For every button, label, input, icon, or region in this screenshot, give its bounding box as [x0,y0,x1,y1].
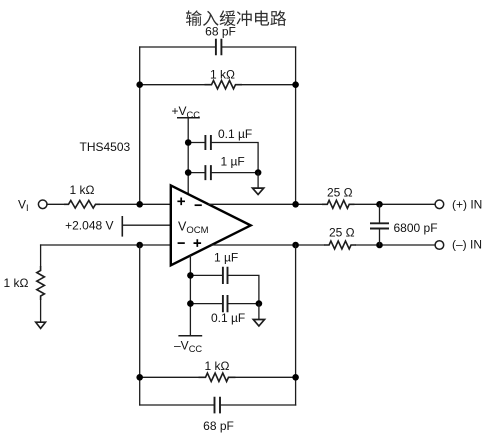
svg-text:1 µF: 1 µF [221,154,245,168]
node 6800pF bottom [376,242,383,249]
svg-text:6800 pF: 6800 pF [394,221,438,235]
resistor R1 1 kOhm input series [47,183,171,208]
node input - [136,242,143,249]
ground G3 (input divider) [36,322,46,328]
svg-text:0.1 µF: 0.1 µF [211,311,245,325]
svg-text:(+) IN: (+) IN [452,198,482,212]
capacitor C4 6800 pF across outputs [370,204,438,245]
svg-text:68 pF: 68 pF [205,24,236,38]
svg-text:0.1 µF: 0.1 µF [218,127,252,141]
node 6800pF top [376,201,383,208]
capacitor C1 68 pF top feedback [140,24,296,55]
terminal (-) IN [435,238,482,252]
node C3 right [255,169,262,176]
node top feedback right [292,81,299,88]
pin + (bottom) [194,239,202,247]
wire left feedback bus [139,47,141,204]
power -VCC rail [174,336,202,354]
wire +VCC to op-amp [187,118,189,195]
node bottom feedback left [136,374,143,381]
svg-text:25 Ω: 25 Ω [327,185,353,199]
node C2 left [185,139,192,146]
capacitor C2 0.1 uF +VCC decoupling [188,127,258,173]
pin - (bottom) [178,242,185,244]
resistor R3 1 kOhm bottom feedback [140,359,296,382]
wire - input row [41,244,171,246]
resistor R2 1 kOhm top feedback [140,68,296,89]
node C7 left [187,300,194,307]
resistor R6 25 Ohm bottom output [324,225,435,249]
node input + [136,201,143,208]
svg-text:THS4503: THS4503 [80,140,131,154]
svg-text:1 kΩ: 1 kΩ [205,359,230,373]
svg-text:25 Ω: 25 Ω [329,225,355,239]
source +2.048 V VOCM [65,216,171,237]
pin - (top) [195,204,202,206]
node top feedback left [136,81,143,88]
node output + feedback [292,201,299,208]
svg-text:1 µF: 1 µF [214,250,238,264]
op-amp U1 triangle [171,185,251,265]
node C6 left [187,272,194,279]
power +VCC rail [172,104,201,120]
node output - feedback [292,242,299,249]
svg-text:1 kΩ: 1 kΩ [4,276,29,290]
svg-text:68 pF: 68 pF [203,419,234,433]
svg-text:1 kΩ: 1 kΩ [210,68,235,82]
wire output - row [211,244,324,246]
terminal VI input [18,198,47,213]
ground G1 (+VCC decoupling) [253,173,264,195]
ground G2 (-VCC decoupling) [253,304,264,326]
svg-text:+2.048 V: +2.048 V [65,219,113,233]
capacitor C5 68 pF bottom feedback [140,397,296,433]
terminal (+) IN [435,198,482,212]
wire output + row [209,203,322,205]
capacitor C6 1 uF -VCC decoupling [190,250,259,303]
wire op-amp to -VCC [189,256,191,336]
wire right feedback bus [295,47,297,204]
resistor R5 25 Ohm top output [322,185,435,208]
capacitor C7 0.1 uF -VCC decoupling [190,295,259,325]
node C7 right [256,300,263,307]
title 输入缓冲电路 [186,10,286,26]
capacitor C3 1 uF +VCC decoupling [188,154,258,180]
wire left bottom bus [139,245,141,405]
node C3 left [185,169,192,176]
svg-text:1 kΩ: 1 kΩ [70,183,95,197]
pin + (top input) [177,198,185,206]
node bottom feedback right [292,374,299,381]
svg-text:(–) IN: (–) IN [452,238,482,252]
resistor R4 1 kOhm to ground [4,245,45,322]
wire right bottom bus [295,245,297,405]
